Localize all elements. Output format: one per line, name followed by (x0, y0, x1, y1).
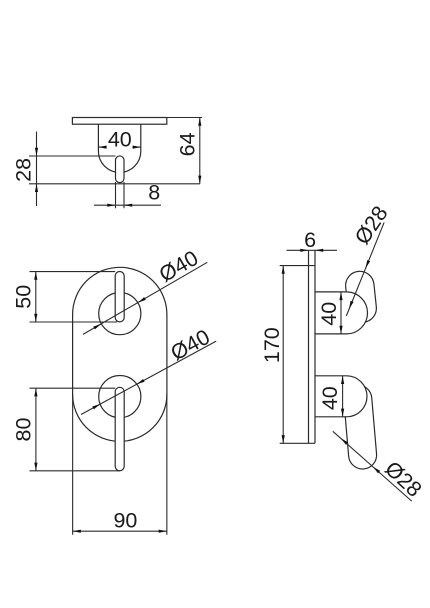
dimension 90 extension lines (73, 394, 167, 535)
svg-text:80: 80 (12, 418, 36, 442)
dimension 90 line (73, 530, 167, 532)
svg-text:170: 170 (260, 327, 284, 363)
svg-text:6: 6 (304, 228, 316, 252)
top knob circle (99, 293, 141, 335)
plate bottom edge / 170 bottom extension (280, 442, 315, 444)
dimension 6 line (287, 249, 338, 251)
svg-text:50: 50 (11, 285, 35, 309)
dimension 8: extension lines below stem (116, 182, 125, 208)
escutcheon oval plate (front) (73, 267, 167, 441)
top knob (side view) (315, 292, 368, 334)
leader diameter 40 (top circle) (83, 262, 207, 334)
dimension 50 extension lines (30, 272, 118, 322)
lever stem (top view stadium) (116, 156, 125, 183)
svg-text:Ø40: Ø40 (155, 246, 202, 287)
dimension 28: top extension line (stem cap top) (29, 155, 116, 157)
dimension 64: top extension line (167, 117, 202, 119)
svg-text:8: 8 (148, 180, 160, 204)
wall plate (side view) vertical edges (309, 251, 316, 443)
dimension 170 line (282, 266, 284, 444)
knob body (top view U-shape) (98, 124, 140, 172)
top lever handle (front) (115, 272, 124, 322)
wall plate (top view, edge-on) (72, 118, 166, 125)
svg-text:28: 28 (12, 158, 36, 182)
leader diameter 28 (top lever) (346, 223, 384, 317)
bottom lever handle (front) (115, 387, 124, 471)
bottom knob circle (99, 376, 141, 418)
dimension 8 line (94, 204, 161, 206)
dimension 28 line with outside arrows (36, 132, 38, 207)
bottom knob (side view) (315, 376, 367, 417)
leader diameter 40 (bottom circle) (81, 341, 216, 414)
svg-text:Ø28: Ø28 (380, 457, 426, 502)
svg-text:Ø28: Ø28 (350, 202, 393, 249)
leader diameter 28 (bottom lever) (333, 431, 412, 501)
dimension 40 (top view) (98, 146, 140, 148)
svg-text:40: 40 (108, 128, 132, 152)
bottom lever (side view, hidden part masked by knob) (343, 384, 378, 470)
dimension 80 line (35, 388, 37, 471)
plate top edge / 170 top extension (280, 265, 315, 267)
svg-text:40: 40 (317, 302, 341, 326)
dimension 64 line (199, 118, 201, 184)
lever tip reference line (29, 183, 200, 185)
dimension 40 (bottom knob) (342, 376, 344, 417)
svg-text:64: 64 (175, 132, 199, 156)
dimension 80 extension lines (30, 388, 121, 471)
dimension 40 (top knob) (340, 292, 342, 334)
svg-text:Ø40: Ø40 (167, 325, 214, 366)
top lever (side view, hidden part masked by knob) (344, 270, 378, 324)
dimension 50 line (35, 272, 37, 322)
svg-text:40: 40 (318, 386, 342, 410)
svg-text:90: 90 (113, 508, 137, 532)
